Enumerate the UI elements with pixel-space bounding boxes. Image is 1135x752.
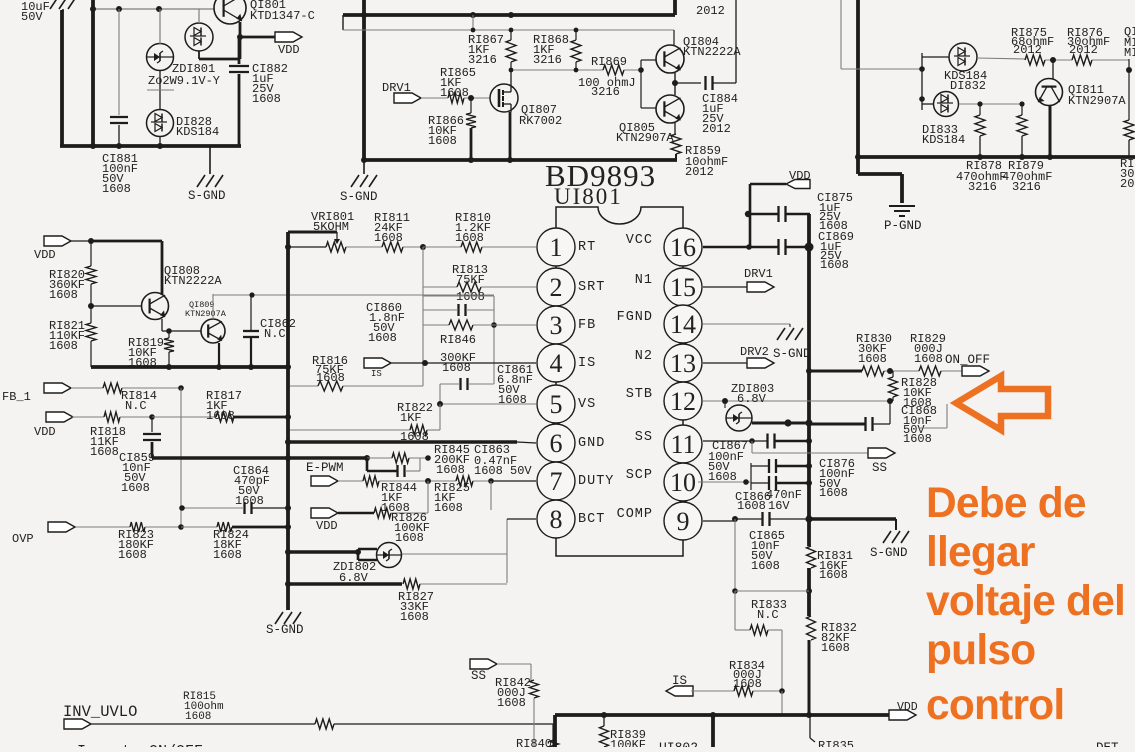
wire QI807 source [509, 112, 512, 160]
wire DI832 right [977, 58, 1025, 59]
svg-text:13: 13 [670, 349, 696, 378]
svg-text:8: 8 [550, 505, 563, 534]
wire QI808 collector [161, 241, 164, 295]
capacitor CI875 [777, 206, 779, 222]
svg-text:SS: SS [471, 669, 486, 683]
svg-text:N.C: N.C [125, 399, 147, 413]
svg-text:P-GND: P-GND [884, 219, 922, 233]
potentiometer VRI801 [326, 242, 346, 252]
svg-text:S-GND: S-GND [773, 347, 811, 361]
svg-text:1608: 1608 [121, 481, 150, 495]
svg-text:DET: DET [1096, 741, 1119, 747]
wire ZDI801 to DI828 [159, 70, 161, 109]
wire S-GND right elbow [809, 517, 896, 520]
svg-text:2: 2 [550, 273, 563, 302]
IC pin 6 GND [537, 424, 575, 462]
resistor RI823 [76, 526, 130, 528]
IC pin 9 COMP [664, 502, 702, 540]
capacitor CI881 [110, 116, 128, 118]
wire VS row pin5 [440, 403, 536, 405]
resistor RI821 [90, 306, 92, 323]
svg-text:10: 10 [670, 468, 696, 497]
svg-text:KDS184: KDS184 [176, 125, 219, 139]
capacitor CI869 [777, 239, 779, 255]
connector DRV2 [747, 358, 774, 368]
svg-text:VDD: VDD [316, 519, 338, 533]
svg-text:voltaje del: voltaje del [926, 578, 1125, 625]
wire pin14 gnd [703, 323, 790, 325]
resistor RI818 [72, 416, 104, 418]
wire S-GND bus QI808 [91, 365, 289, 369]
resistor RI879 [1021, 104, 1023, 115]
wire RI827 row thick [290, 582, 402, 585]
transistor QI804 [656, 45, 684, 73]
svg-text:1608: 1608 [90, 445, 119, 459]
svg-text:VDD: VDD [897, 701, 918, 714]
resistor RI817 [152, 416, 216, 418]
wire GND row pin6 [290, 440, 517, 443]
svg-text:9: 9 [677, 507, 690, 536]
svg-text:1608: 1608 [400, 610, 429, 624]
resistor RI830 [862, 366, 884, 376]
svg-text:3216: 3216 [468, 53, 497, 67]
wire QI811 base [1052, 60, 1054, 79]
IC pin 2 SRT [537, 268, 575, 306]
IC U1801 body outline [556, 207, 683, 230]
wire pin16 to VDD [703, 246, 749, 249]
wire QI811 collector [1049, 105, 1052, 157]
wire IS row pin4 [391, 362, 536, 364]
svg-text:DRV2: DRV2 [740, 345, 769, 359]
wire ZDI803 out [752, 422, 809, 425]
svg-text:4: 4 [550, 349, 563, 378]
svg-text:1608: 1608 [374, 231, 403, 245]
connector VDD right [786, 180, 810, 189]
wire S-GND drop [209, 146, 211, 174]
wire RI835 stem [809, 715, 811, 738]
svg-text:control: control [926, 682, 1064, 729]
svg-text:1608: 1608 [206, 409, 235, 423]
ground P-GND [889, 205, 915, 207]
capacitor CI876 [768, 459, 770, 473]
wire DI832 left [922, 56, 949, 58]
svg-text:16V: 16V [768, 499, 790, 513]
svg-text:VDD: VDD [34, 425, 56, 439]
svg-text:1608: 1608 [440, 86, 469, 100]
svg-text:12: 12 [670, 387, 696, 416]
wire ZDI802 out [402, 553, 507, 555]
wire base bracket [640, 60, 642, 108]
connector SS right [868, 448, 895, 458]
IC pin 11 SS [664, 425, 702, 463]
svg-text:BCT: BCT [578, 512, 605, 527]
wire RI845 feed [290, 456, 367, 459]
svg-text:FB: FB [578, 318, 596, 333]
resistor RI875 [1025, 55, 1045, 65]
wire S-GND bus mid [364, 158, 677, 162]
wire QI809 emitter [218, 343, 220, 367]
resistor RI827 [403, 579, 420, 589]
capacitor CI863 [396, 465, 398, 477]
resistor RI844 [338, 480, 363, 482]
transistor QI805 [656, 95, 684, 123]
svg-text:VDD: VDD [278, 43, 300, 57]
capacitor CI860 [457, 304, 459, 316]
wire QI804 collector [673, 30, 675, 45]
IC pin 12 STB [664, 382, 702, 420]
capacitor CI859 [143, 433, 161, 435]
resistor RI834 [691, 690, 734, 692]
resistor RI869 [603, 65, 624, 75]
svg-text:1608: 1608 [858, 352, 887, 366]
svg-text:1608: 1608 [428, 134, 457, 148]
svg-text:DI832: DI832 [950, 79, 986, 93]
connector VDD mid [311, 508, 338, 518]
svg-text:5: 5 [550, 390, 563, 419]
svg-text:1608: 1608 [498, 393, 527, 407]
svg-text:S-GND: S-GND [340, 190, 378, 204]
svg-text:1608: 1608 [102, 182, 131, 196]
svg-text:RI835: RI835 [818, 739, 854, 747]
svg-text:1608: 1608 [395, 531, 424, 545]
wire S-GND drop mid [363, 162, 365, 174]
IC pin 5 VS [537, 385, 575, 423]
connector ON_OFF [962, 366, 989, 376]
wire P-GND trunk [856, 0, 860, 174]
svg-text:SS: SS [635, 430, 653, 445]
resistor RI867 [506, 40, 516, 62]
resistor RI845 [367, 457, 392, 459]
connector OVP [48, 522, 75, 532]
svg-text:N1: N1 [635, 273, 653, 288]
IC pin 3 FB [537, 306, 575, 344]
svg-text:2012: 2012 [702, 122, 731, 136]
svg-text:KTN2907A: KTN2907A [185, 309, 227, 319]
resistor RI811 [382, 242, 403, 252]
svg-text:6: 6 [550, 429, 563, 458]
diode DI828 [147, 110, 174, 137]
svg-text:7: 7 [550, 467, 563, 496]
svg-text:1608: 1608 [252, 92, 281, 106]
svg-text:20: 20 [1120, 177, 1134, 191]
wire dual-diode top stem [198, 9, 200, 23]
capacitor CI882 [229, 65, 249, 67]
capacitor CI866 [768, 476, 770, 490]
svg-text:RI869: RI869 [591, 55, 627, 69]
zener ZDI803 [726, 405, 752, 431]
svg-text:VCC: VCC [626, 233, 653, 248]
resistor RI831 [807, 546, 816, 568]
svg-text:3216: 3216 [591, 85, 620, 99]
svg-text:2012: 2012 [1013, 43, 1042, 57]
wire x494 link row [423, 295, 494, 297]
svg-text:N.C: N.C [757, 608, 779, 622]
capacitor CI867 [766, 434, 768, 449]
svg-text:3: 3 [550, 311, 563, 340]
svg-text:1608: 1608 [368, 331, 397, 345]
wire vertical x181 [180, 388, 182, 527]
IC pin 14 FGND [664, 305, 702, 343]
svg-text:FB_1: FB_1 [2, 390, 31, 404]
wire RI875-RI876 [1045, 59, 1072, 61]
connector SS bottom [470, 659, 497, 669]
ground S-GND right [883, 531, 891, 543]
svg-text:pulso: pulso [926, 627, 1035, 674]
connector VDD bottom [889, 710, 916, 720]
diode pair top (dual diode) [185, 23, 213, 51]
wire CI859 to bus [152, 456, 288, 459]
resistor RI842 [497, 663, 531, 665]
wire QI801 emitter [239, 22, 242, 59]
svg-text:1608: 1608 [436, 463, 465, 477]
connector DRV1 right [747, 282, 774, 292]
wire to diodes gray [840, 0, 842, 69]
svg-text:1608: 1608 [434, 501, 463, 515]
wire DI828 bottom stem [159, 136, 161, 146]
capacitor CI861 [459, 378, 461, 390]
svg-text:100KF: 100KF [610, 738, 646, 747]
wire collector bus y15 [343, 13, 675, 17]
capacitor CI862 [243, 330, 259, 332]
svg-text:1608: 1608 [497, 696, 526, 710]
wire VDD tap [240, 36, 275, 39]
svg-text:STB: STB [626, 387, 653, 402]
resistor RI840 clipped [550, 740, 559, 752]
capacitor CI864 [243, 502, 245, 514]
wire vertical x675 top [673, 0, 677, 15]
wire QI809 collector [212, 294, 214, 319]
wire BCT bracket [506, 519, 508, 583]
IC pin 13 N2 [664, 344, 702, 382]
wire row y70 [510, 69, 603, 71]
resistor right edge [1124, 120, 1134, 140]
svg-text:llegar: llegar [926, 529, 1035, 576]
wire SS out [751, 441, 753, 453]
diode DI833 [934, 92, 959, 117]
capacitor CI884 [704, 76, 706, 90]
svg-text:VDD: VDD [789, 169, 811, 183]
wire base row y9 [93, 8, 214, 10]
IC pin 1 RT [537, 228, 575, 266]
resistor RI814 [71, 387, 103, 389]
transistor QI807 mosfet [490, 84, 518, 112]
connector FB_1 [44, 383, 71, 393]
wire gray row y30 [343, 29, 674, 31]
svg-text:1608: 1608 [118, 548, 147, 562]
connector IS bottom [666, 686, 693, 696]
svg-text:S-GND: S-GND [266, 623, 304, 637]
resistor RI810 [423, 246, 461, 248]
svg-text:RI840: RI840 [516, 737, 552, 747]
svg-text:FGND: FGND [617, 310, 653, 325]
zener ZDI802 [377, 543, 402, 568]
svg-text:5KOHM: 5KOHM [313, 220, 349, 234]
wire DI833 right [959, 103, 1022, 105]
wire vertical x494 [493, 296, 495, 384]
resistor RI822 [288, 429, 410, 431]
orange arrow [956, 376, 1048, 430]
capacitor CI865 [761, 512, 763, 526]
wire ON_OFF row [809, 370, 862, 373]
wire left vertical bus A [60, 10, 64, 146]
svg-text:DUTY: DUTY [578, 474, 614, 489]
svg-text:VDD: VDD [34, 248, 56, 262]
wire dual-diode bottom elbow [198, 51, 200, 59]
svg-text:14: 14 [670, 310, 696, 339]
IC pin 8 BCT [537, 500, 575, 538]
svg-text:1: 1 [550, 233, 563, 262]
svg-text:OVP: OVP [12, 532, 34, 546]
wire ZDI801 top stem [159, 9, 161, 44]
svg-text:1608: 1608 [49, 288, 78, 302]
capacitor CI868 [864, 417, 866, 431]
resistor RI876 [1072, 55, 1092, 65]
svg-text:6.8V: 6.8V [737, 392, 767, 406]
svg-text:1608: 1608 [819, 486, 848, 500]
resistor RI829 [919, 366, 941, 376]
transistor QI811 [1036, 79, 1063, 106]
svg-text:1608: 1608 [213, 548, 242, 562]
svg-text:IS: IS [672, 674, 687, 688]
svg-text:1KF: 1KF [400, 411, 422, 425]
svg-text:16: 16 [670, 233, 696, 262]
svg-text:SRT: SRT [578, 280, 605, 295]
resistor RI820 [90, 241, 92, 266]
connector DRV1 left [394, 93, 421, 103]
svg-text:ON_OFF: ON_OFF [945, 353, 990, 367]
resistor RI839 [603, 715, 605, 726]
svg-text:1608: 1608 [819, 568, 848, 582]
wire VDD elbow [750, 183, 786, 186]
svg-text:1608: 1608 [235, 494, 264, 508]
svg-text:KDS184: KDS184 [922, 133, 965, 147]
wire stub near arrow [946, 404, 948, 428]
transistor QI801 [214, 0, 246, 24]
svg-text:75KF: 75KF [456, 273, 485, 287]
svg-text:S-GND: S-GND [188, 189, 226, 203]
svg-text:1608: 1608 [49, 339, 78, 353]
ground S-GND left bus [275, 612, 283, 624]
svg-text:1608: 1608 [316, 371, 345, 385]
transistor QI808 [142, 293, 169, 320]
wire vertical trunk x364 [362, 0, 366, 162]
wire RI876 right [1092, 59, 1129, 61]
svg-text:3216: 3216 [1012, 180, 1041, 194]
svg-text:N2: N2 [635, 349, 653, 364]
ground top-left [50, 0, 58, 9]
svg-text:3216: 3216 [533, 53, 562, 67]
wire S-GND bus top-left [60, 144, 241, 148]
wire SCP bracket [750, 463, 752, 490]
wire bottom bus [555, 713, 889, 717]
svg-text:2012: 2012 [696, 4, 725, 18]
wire QI808 emitter [161, 319, 163, 331]
wire left vertical bus B [91, 0, 95, 146]
resistor RI868 [571, 40, 581, 62]
resistor RI866 [470, 98, 472, 113]
resistor RI819 [168, 331, 170, 338]
svg-text:1608: 1608 [914, 352, 943, 366]
resistor RI813 [423, 286, 457, 288]
wire main left bus x288 [286, 232, 290, 610]
wire QI807 drain [510, 70, 512, 84]
svg-text:1608 50V: 1608 50V [474, 464, 532, 478]
resistor RI816 [290, 385, 318, 387]
svg-text:50V: 50V [21, 10, 43, 24]
resistor RI826 [338, 512, 374, 515]
wire SRT feedback row [213, 294, 494, 296]
wire main right bus x809 [807, 214, 811, 546]
svg-text:KTN2907A: KTN2907A [1068, 94, 1126, 108]
wire to CI884 [675, 82, 701, 84]
svg-text:IS: IS [371, 369, 382, 379]
wire VR corner thick [288, 231, 337, 234]
resistor RI833 [735, 629, 750, 631]
svg-text:UI802: UI802 [659, 740, 698, 747]
svg-text:1608: 1608 [456, 290, 485, 304]
svg-text:E-PWM: E-PWM [306, 461, 344, 475]
resistor RI846 FB row [423, 324, 449, 326]
svg-text:Zo2W9.1V-Y: Zo2W9.1V-Y [148, 74, 220, 88]
svg-text:COMP: COMP [617, 507, 653, 522]
wire vertical x423 [422, 247, 424, 386]
wire RI833 loop [734, 519, 736, 591]
resistor RI815 [91, 723, 315, 725]
svg-text:1608: 1608 [455, 231, 484, 245]
svg-text:KTN2907A: KTN2907A [616, 131, 674, 145]
svg-text:InverterON/OFF: InverterON/OFF [77, 743, 203, 747]
wire DRV1 to gate [421, 97, 448, 99]
wire VDD row [71, 240, 91, 242]
IC pin 15 N1 [664, 268, 702, 306]
connector E-PWM [311, 476, 338, 486]
svg-text:1608: 1608 [903, 432, 932, 446]
connector INV_UVLO [64, 719, 91, 729]
ground S-GND top-left [197, 175, 205, 187]
svg-text:SCP: SCP [626, 468, 653, 483]
svg-text:11: 11 [670, 430, 695, 459]
svg-text:GND: GND [578, 436, 605, 451]
diode DI832 [949, 43, 977, 71]
ground S-GND pin14 [777, 328, 785, 340]
svg-text:2012: 2012 [1069, 43, 1098, 57]
connector VDD left2 [46, 412, 73, 422]
svg-text:UI801: UI801 [554, 184, 623, 209]
resistor RI865 [448, 93, 464, 103]
svg-text:1608: 1608 [821, 641, 850, 655]
resistor RI859 [674, 123, 676, 134]
svg-text:KTN2222A: KTN2222A [164, 274, 222, 288]
svg-text:KTD1347-C: KTD1347-C [250, 9, 315, 23]
svg-text:15: 15 [670, 273, 696, 302]
connector VDD top-left [275, 32, 302, 42]
wire P-GND bus right [858, 155, 1135, 159]
connector IS left [364, 358, 391, 368]
svg-text:3216: 3216 [968, 180, 997, 194]
svg-text:N.C: N.C [264, 327, 286, 341]
svg-text:1608: 1608 [820, 258, 849, 272]
connector VDD left1 [44, 236, 71, 246]
resistor RI828 [892, 371, 894, 377]
wire collectors join [674, 73, 676, 95]
svg-text:1608: 1608 [185, 711, 211, 723]
wire RT row [288, 246, 326, 248]
IC pin 7 DUTY [537, 462, 575, 500]
svg-text:DRV1: DRV1 [744, 267, 773, 281]
wire ZDI802 feed [290, 550, 358, 553]
svg-text:VS: VS [578, 397, 596, 412]
svg-text:RI846: RI846 [440, 333, 476, 347]
